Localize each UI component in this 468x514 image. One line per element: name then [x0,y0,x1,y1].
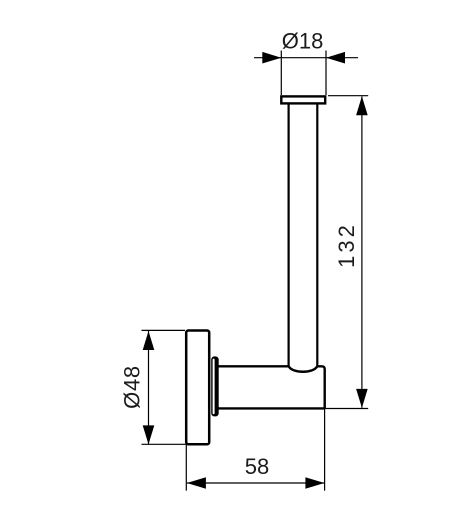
dimension line Ø18 [254,57,358,59]
dimension 132 [325,96,369,409]
arrow left (points left) 58 [187,477,206,489]
rosette (wall plate, side view) [186,331,209,445]
arrow up Ø48 [143,331,155,350]
svg-text:132: 132 [334,222,359,268]
dimension Ø18 [254,51,358,96]
wire: tube right line [316,103,318,366]
svg-text:58: 58 [245,454,269,479]
arrow down Ø48 [143,425,155,444]
extension line right of 58 [324,408,326,490]
arrow up 132 [356,96,368,115]
extension line left of Ø18 [280,51,282,96]
fillet dip where tube meets arm [289,366,318,372]
extension line bottom of 132 [325,408,369,410]
dimension Ø48 [142,330,188,444]
dimension 58 [186,408,324,490]
arm top edge left segment [218,365,289,367]
collar between rosette and arm [211,356,219,416]
arrow down 132 [356,389,368,408]
wire: tube left line [288,103,290,366]
extension line right of Ø18 [325,51,327,96]
extension line bottom of Ø48 [142,443,188,445]
dimension line 58 [187,482,324,484]
arm bottom edge [218,407,325,409]
dimension line Ø48 [148,331,150,444]
extension line left of 58 [185,445,187,491]
svg-text:Ø18: Ø18 [282,29,324,54]
dimension line 132 [361,97,363,408]
extension line top of 132 [328,95,368,97]
arrow left (points right) Ø18 [262,52,281,64]
svg-text:Ø48: Ø48 [119,365,144,409]
cap (top cover of vertical post) [281,96,325,103]
arrow right (points left) Ø18 [326,52,345,64]
extension line top of Ø48 [142,329,186,331]
arm top edge right segment + right edge [317,366,324,408]
arrow right (points right) 58 [305,477,324,489]
